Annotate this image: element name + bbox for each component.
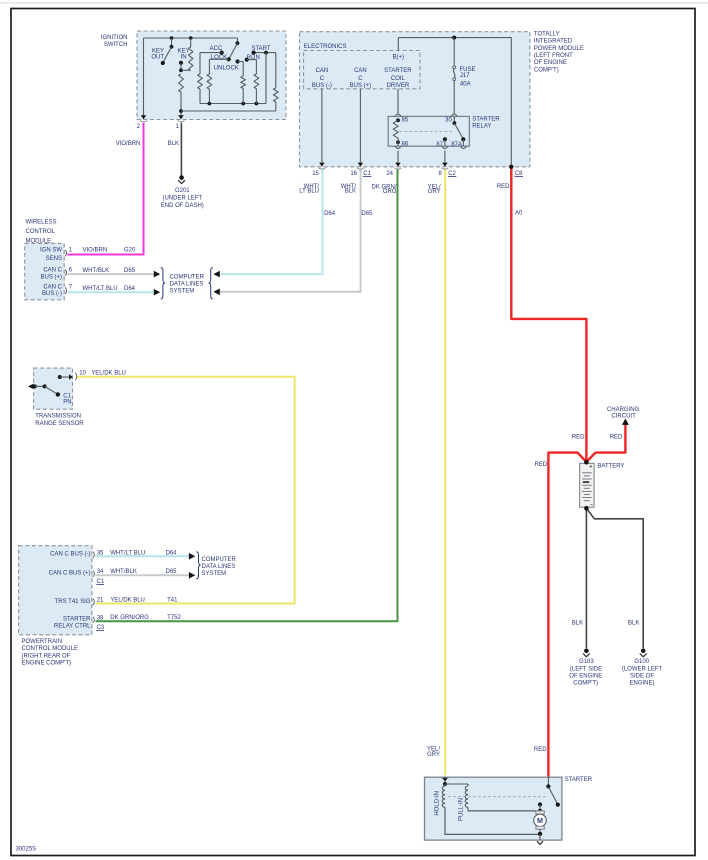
svg-text:G100: G100 xyxy=(634,659,649,665)
svg-text:BLK: BLK xyxy=(628,620,639,626)
svg-text:A0: A0 xyxy=(515,210,523,216)
svg-text:(LOWER LEFT: (LOWER LEFT xyxy=(622,666,663,672)
svg-text:TRS T41 SIG: TRS T41 SIG xyxy=(55,599,91,605)
svg-text:SWITCH: SWITCH xyxy=(104,42,128,48)
svg-text:ENGINE): ENGINE) xyxy=(629,680,654,686)
svg-text:RED: RED xyxy=(497,184,510,190)
svg-text:(LEFT FRONT: (LEFT FRONT xyxy=(534,53,573,59)
svg-text:YEL/DK BLU: YEL/DK BLU xyxy=(91,371,126,377)
svg-text:IN: IN xyxy=(181,55,187,61)
svg-text:CAN C: CAN C xyxy=(43,267,62,273)
svg-text:CAN C: CAN C xyxy=(43,284,62,290)
svg-text:30: 30 xyxy=(445,118,452,124)
svg-text:WHT/LT BLU: WHT/LT BLU xyxy=(110,550,145,556)
svg-text:87: 87 xyxy=(436,142,443,148)
svg-text:CAN: CAN xyxy=(354,68,367,74)
svg-text:BUS (-): BUS (-) xyxy=(42,291,62,297)
svg-text:TOTALLY: TOTALLY xyxy=(534,31,560,37)
svg-text:M: M xyxy=(537,818,543,825)
svg-text:OUT: OUT xyxy=(151,55,164,61)
svg-text:STARTER: STARTER xyxy=(565,777,593,783)
svg-text:SIDE OF: SIDE OF xyxy=(630,673,654,679)
svg-text:VIO/BRN: VIO/BRN xyxy=(116,141,141,147)
svg-text:DATA LINES: DATA LINES xyxy=(202,564,236,570)
svg-text:WHT/BLK: WHT/BLK xyxy=(83,268,110,274)
svg-text:VIO/BRN: VIO/BRN xyxy=(83,248,108,254)
svg-text:D64: D64 xyxy=(166,550,178,556)
svg-text:(RIGHT REAR OF: (RIGHT REAR OF xyxy=(22,653,71,659)
svg-text:D65: D65 xyxy=(124,268,136,274)
svg-text:RELAY: RELAY xyxy=(472,124,491,130)
svg-text:WHT/LT BLU: WHT/LT BLU xyxy=(83,286,118,292)
svg-text:BLK: BLK xyxy=(168,141,179,147)
svg-text:10: 10 xyxy=(79,371,86,377)
svg-text:ENGINE COMP'T): ENGINE COMP'T) xyxy=(22,661,71,667)
svg-text:KEY: KEY xyxy=(152,48,164,54)
svg-text:D65: D65 xyxy=(361,211,373,217)
svg-text:15: 15 xyxy=(312,171,319,177)
svg-text:DK GRN/ORG: DK GRN/ORG xyxy=(110,615,149,621)
svg-text:T41: T41 xyxy=(167,598,178,604)
svg-text:RED: RED xyxy=(610,434,623,440)
svg-text:IGN SW: IGN SW xyxy=(40,247,62,253)
svg-text:RUN: RUN xyxy=(247,55,260,61)
svg-text:BLK: BLK xyxy=(572,620,583,626)
svg-text:CAN: CAN xyxy=(316,68,329,74)
svg-text:COMPUTER: COMPUTER xyxy=(170,274,205,280)
svg-text:J17: J17 xyxy=(460,73,470,79)
svg-text:B(+): B(+) xyxy=(393,55,405,61)
svg-text:BLK: BLK xyxy=(345,189,356,195)
svg-text:RED: RED xyxy=(572,434,585,440)
svg-text:START: START xyxy=(251,46,270,52)
svg-text:CONTROL MODULE: CONTROL MODULE xyxy=(22,646,78,652)
svg-text:DRIVER: DRIVER xyxy=(387,83,410,89)
svg-text:HOLD-IN: HOLD-IN xyxy=(435,791,441,816)
svg-text:IGNITION: IGNITION xyxy=(101,35,128,41)
svg-text:SYSTEM: SYSTEM xyxy=(202,571,227,577)
svg-text:POWERTRAIN: POWERTRAIN xyxy=(22,639,63,645)
svg-text:ORG: ORG xyxy=(383,189,397,195)
svg-text:STARTER: STARTER xyxy=(63,617,91,623)
svg-text:21: 21 xyxy=(97,598,104,604)
svg-text:GRY: GRY xyxy=(428,189,441,195)
svg-text:LT BLU: LT BLU xyxy=(299,189,319,195)
svg-text:LOCK: LOCK xyxy=(211,55,227,61)
svg-text:87A: 87A xyxy=(451,142,462,148)
svg-text:D64: D64 xyxy=(124,286,136,292)
svg-text:INTEGRATED: INTEGRATED xyxy=(534,39,573,45)
svg-text:16: 16 xyxy=(350,171,357,177)
svg-text:ELECTRONICS: ELECTRONICS xyxy=(304,44,347,50)
svg-text:GRY: GRY xyxy=(427,752,440,758)
svg-text:CAN C BUS (+): CAN C BUS (+) xyxy=(49,571,91,577)
svg-text:STARTER: STARTER xyxy=(472,117,500,123)
svg-text:(UNDER LEFT: (UNDER LEFT xyxy=(162,196,202,202)
svg-text:UNLOCK: UNLOCK xyxy=(214,65,239,71)
svg-text:KEY: KEY xyxy=(178,48,190,54)
svg-text:RANGE SENSOR: RANGE SENSOR xyxy=(35,421,84,427)
svg-text:YEL/DK BLU: YEL/DK BLU xyxy=(110,598,145,604)
svg-text:G201: G201 xyxy=(175,188,190,194)
svg-text:OF ENGINE: OF ENGINE xyxy=(534,60,567,66)
svg-text:CIRCUIT: CIRCUIT xyxy=(611,413,636,419)
svg-text:D65: D65 xyxy=(166,569,178,575)
svg-text:COIL: COIL xyxy=(391,76,406,82)
svg-text:BATTERY: BATTERY xyxy=(597,464,624,470)
svg-text:38: 38 xyxy=(97,615,104,621)
svg-text:BUS (+): BUS (+) xyxy=(40,275,62,281)
svg-text:86: 86 xyxy=(402,142,409,148)
svg-text:BUS (+): BUS (+) xyxy=(350,83,372,89)
svg-text:OF ENGINE: OF ENGINE xyxy=(569,673,602,679)
svg-text:85: 85 xyxy=(402,118,409,124)
svg-text:END OF DASH): END OF DASH) xyxy=(161,203,204,209)
svg-text:PULL-IN: PULL-IN xyxy=(458,798,464,821)
svg-text:CONTROL: CONTROL xyxy=(26,229,56,235)
svg-text:PN: PN xyxy=(63,399,71,405)
svg-text:RELAY CTRL: RELAY CTRL xyxy=(54,624,91,630)
svg-text:35: 35 xyxy=(97,550,104,556)
svg-text:COMP'T): COMP'T) xyxy=(534,67,559,73)
svg-text:BUS (-): BUS (-) xyxy=(312,83,332,89)
svg-text:WHT/BLK: WHT/BLK xyxy=(110,569,137,575)
svg-text:ACC: ACC xyxy=(210,46,223,52)
svg-text:COMPUTER: COMPUTER xyxy=(202,557,237,563)
svg-text:G20: G20 xyxy=(124,248,136,254)
svg-text:POWER MODULE: POWER MODULE xyxy=(534,46,584,52)
svg-text:SYSTEM: SYSTEM xyxy=(170,288,195,294)
svg-text:CAN C BUS (-): CAN C BUS (-) xyxy=(50,552,90,558)
svg-text:STARTER: STARTER xyxy=(384,68,412,74)
svg-text:34: 34 xyxy=(97,569,104,575)
svg-text:24: 24 xyxy=(386,171,393,177)
svg-text:D64: D64 xyxy=(324,211,336,217)
svg-text:C: C xyxy=(320,76,325,82)
svg-text:COMP'T): COMP'T) xyxy=(573,680,598,686)
svg-text:(LEFT SIDE: (LEFT SIDE xyxy=(570,666,602,672)
svg-text:T752: T752 xyxy=(167,615,181,621)
svg-text:SENS: SENS xyxy=(46,256,62,262)
svg-text:RED: RED xyxy=(534,747,547,753)
svg-text:DATA LINES: DATA LINES xyxy=(170,281,204,287)
svg-text:RED: RED xyxy=(535,462,548,468)
svg-text:TRANSMISSION: TRANSMISSION xyxy=(35,414,81,420)
svg-text:30025S: 30025S xyxy=(16,847,37,853)
svg-text:C: C xyxy=(358,76,363,82)
svg-text:WIRELESS: WIRELESS xyxy=(26,219,57,225)
svg-text:G103: G103 xyxy=(579,659,594,665)
svg-text:CHARGING: CHARGING xyxy=(607,407,640,413)
svg-text:40A: 40A xyxy=(460,81,471,87)
